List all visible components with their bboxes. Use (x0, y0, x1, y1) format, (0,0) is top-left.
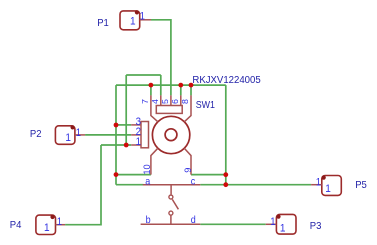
wire P1 pin1 to SW1 pin5 (151, 20, 171, 96)
wire contact d to P3 (200, 223, 265, 225)
svg-text:RKJXV1224005: RKJXV1224005 (192, 75, 261, 86)
P5 pin number 1 (316, 177, 322, 189)
junction pin10 row/left bus (114, 172, 119, 177)
wire P4 riser (65, 145, 101, 225)
junction pin3/left bus (114, 123, 119, 128)
SW1 pin number 9 (183, 168, 193, 173)
svg-text:1: 1 (65, 132, 71, 145)
svg-text:1: 1 (44, 222, 50, 235)
junction pin1 row/vertical link (124, 143, 129, 148)
wire SW1 pin3 branch (116, 124, 131, 126)
wire to contact a (116, 184, 143, 186)
SW1 pin number 10 (142, 164, 152, 174)
P5 reference label (355, 180, 367, 191)
P1 pin number 1 (140, 11, 146, 23)
SW1 pin number 3 (136, 115, 141, 128)
P1 reference label (97, 18, 109, 29)
connector P4 (36, 215, 65, 235)
svg-text:1: 1 (136, 136, 141, 149)
SW1 pin number 4 (150, 99, 160, 104)
svg-text:1: 1 (140, 11, 146, 23)
SW1 contact label c (191, 176, 196, 188)
SW1 pin number 2 (136, 125, 141, 138)
wire SW1 pin1 row (101, 144, 131, 146)
P1 pad number 1 (130, 15, 136, 28)
svg-text:1: 1 (270, 217, 276, 229)
junction pin6/bus (178, 83, 183, 88)
SW1 contact label a (145, 176, 151, 188)
SW1 pin number 8 (180, 99, 190, 104)
svg-text:P4: P4 (10, 220, 22, 231)
svg-text:c: c (191, 176, 196, 188)
junction pin8/bus (189, 83, 194, 88)
svg-text:5: 5 (160, 99, 170, 104)
svg-text:P3: P3 (310, 221, 322, 232)
svg-text:9: 9 (183, 168, 193, 173)
SW1 pin number 6 (170, 99, 180, 104)
svg-text:a: a (145, 176, 151, 188)
wire drop to SW1 pin4 (160, 75, 162, 95)
P4 pin number 1 (57, 217, 63, 229)
connector P1 (120, 10, 151, 30)
svg-text:d: d (191, 215, 196, 227)
wire left vertical bus (115, 85, 117, 185)
P3 pin number 1 (270, 217, 276, 229)
wire right vertical to node row (225, 85, 227, 185)
connector P5 (311, 176, 341, 196)
connector P3 (266, 214, 296, 234)
svg-text:SW1: SW1 (196, 98, 215, 110)
wire stub SW1 pin7 (150, 85, 152, 95)
SW1 reference label (196, 98, 215, 110)
svg-text:P1: P1 (97, 18, 109, 29)
svg-text:1: 1 (57, 217, 63, 229)
svg-text:1: 1 (316, 177, 322, 189)
svg-text:8: 8 (180, 99, 190, 104)
junction P5 row/right vertical (223, 182, 228, 187)
svg-text:1: 1 (76, 127, 82, 139)
P4 reference label (10, 220, 22, 231)
svg-text:P2: P2 (30, 129, 42, 140)
P2 pad number 1 (65, 132, 71, 145)
junction pin7/bus (149, 83, 154, 88)
P2 reference label (30, 129, 42, 140)
SW1 value RKJXV1224005 (192, 75, 261, 86)
svg-text:6: 6 (170, 99, 180, 104)
P2 pin number 1 (76, 127, 82, 139)
wire main horizontal bus (116, 84, 226, 86)
SW1 contact label b (146, 215, 151, 227)
SW1 contact label d (191, 215, 196, 227)
wire contact c to P5 (200, 184, 311, 186)
wire stub SW1 pin8 (190, 85, 192, 95)
svg-text:b: b (146, 215, 151, 227)
P5 pad number 1 (325, 183, 331, 196)
junction pin9 row/right vertical (223, 172, 228, 177)
P3 pad number 1 (280, 222, 286, 235)
svg-text:1: 1 (130, 15, 136, 28)
wire top horizontal to pin4 (126, 74, 161, 76)
wire vertical pin1 to pin4 link (125, 75, 127, 145)
svg-text:4: 4 (150, 99, 160, 104)
svg-text:1: 1 (325, 183, 331, 196)
P4 pad number 1 (44, 222, 50, 235)
svg-text:7: 7 (140, 99, 150, 104)
connector P2 (55, 125, 85, 144)
wire P2 to SW1 pin2 (85, 134, 131, 136)
SW1 pin number 7 (140, 99, 150, 104)
svg-text:P5: P5 (355, 180, 367, 191)
wire SW1 pin10 row (116, 174, 151, 176)
SW1 pin number 5 (160, 99, 170, 104)
wire SW1 pin9 row (191, 174, 226, 176)
svg-text:1: 1 (280, 222, 286, 235)
wire stub SW1 pin6 (180, 85, 182, 95)
switch SW1 (131, 95, 200, 224)
SW1 pin number 1 (136, 136, 141, 149)
P3 reference label (310, 221, 322, 232)
svg-text:10: 10 (142, 164, 152, 174)
